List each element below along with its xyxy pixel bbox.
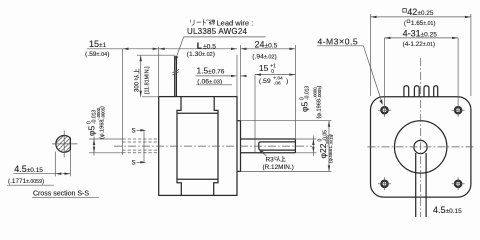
svg-text:(R.12MIN.): (R.12MIN.) [263,164,294,171]
centerline [114,145,312,147]
svg-text:0: 0 [271,69,274,75]
svg-text:S: S [132,160,136,167]
svg-text:1.65±.01): 1.65±.01) [411,20,436,27]
lead wire label [184,19,266,37]
shaft flat (D-cut) [259,142,296,150]
label 4-M3x0.5 tapped holes [317,37,383,105]
dimension phi22 boss [241,121,334,172]
svg-text:(φ.8661: (φ.8661 [328,146,334,163]
rear shaft hidden lines [123,139,159,153]
lead wire stubs on face [404,86,438,97]
mounting hole bottom-right [452,177,465,190]
svg-text:(.59±.04): (.59±.04) [85,51,109,58]
dimension square 42 [371,7,471,96]
svg-text:[11.81MIN.]: [11.81MIN.] [145,66,151,94]
R3 min note [259,150,293,171]
svg-text:(φ.1968: (φ.1968 [316,99,322,119]
svg-text:φ5: φ5 [87,125,97,136]
svg-text:UL3385 AWG24: UL3385 AWG24 [187,27,247,36]
section cut line S-S [137,129,147,163]
svg-text:±0.5: ±0.5 [203,43,216,50]
svg-text:(4-1.22±.01): (4-1.22±.01) [403,41,435,48]
rear shaft end extension [122,49,124,155]
dimension L body length [159,40,237,96]
svg-text:φ5: φ5 [300,101,310,112]
pilot circle [395,121,447,173]
section circle with flat [56,136,71,153]
mounting flange plate [371,97,471,197]
front shaft [241,139,296,153]
face centerlines [368,58,476,217]
svg-text:): ) [100,106,106,108]
dimension 24±0.5 shaft length [241,39,296,139]
svg-text:): ) [316,86,322,88]
dimension 4.5±0.15 flat width [7,151,70,186]
cross section label [32,191,99,198]
pilot boss [237,121,241,172]
dimension 4-31 hole spacing [385,29,459,105]
svg-text:-.0019: -.0019 [329,135,334,146]
wire exit lines [416,153,426,217]
shaft circle [414,140,427,153]
svg-text:-.0005: -.0005 [317,87,322,100]
svg-text:(.59: (.59 [259,78,271,85]
svg-text:15: 15 [259,63,269,73]
svg-text:(.06±.03): (.06±.03) [197,79,222,86]
svg-text:-.0005: -.0005 [100,107,105,120]
svg-text:(.94±.02): (.94±.02) [252,53,276,60]
svg-text:(1.30±.02): (1.30±.02) [187,51,215,58]
hatching [56,136,71,153]
dimension 15 +1/0 flat length [255,63,295,153]
svg-text:Cross section S-S: Cross section S-S [33,191,89,198]
svg-text:R3: R3 [266,157,275,164]
svg-text:-0.013: -0.013 [305,86,311,100]
dimension 15±1 rear shaft [85,39,159,58]
svg-text:(.1771±.0059): (.1771±.0059) [8,178,44,185]
dimension 1.5±0.76 boss height [196,65,247,85]
motor body outline [159,97,237,196]
mounting hole top-left [378,104,391,117]
svg-text:300: 300 [135,81,141,92]
dimension phi5 rear shaft [86,106,122,156]
svg-text:(φ.1968: (φ.1968 [100,120,106,140]
stator stack stepped outline [177,97,218,196]
svg-text:): ) [286,78,288,85]
svg-text:4-M3×0.5: 4-M3×0.5 [318,37,359,47]
dimension 4.5 wire exit (clipped at bottom) [433,205,462,215]
section centerlines [52,131,78,158]
dimension 300 min lead length [134,55,176,97]
svg-text:.06: .06 [274,80,281,86]
dimension phi5 front shaft [295,86,322,157]
mounting hole top-right [452,104,465,117]
svg-text:S: S [132,128,136,135]
lead wire leader [175,37,183,61]
lead wires [172,56,179,97]
mounting hole bottom-left [378,177,391,190]
